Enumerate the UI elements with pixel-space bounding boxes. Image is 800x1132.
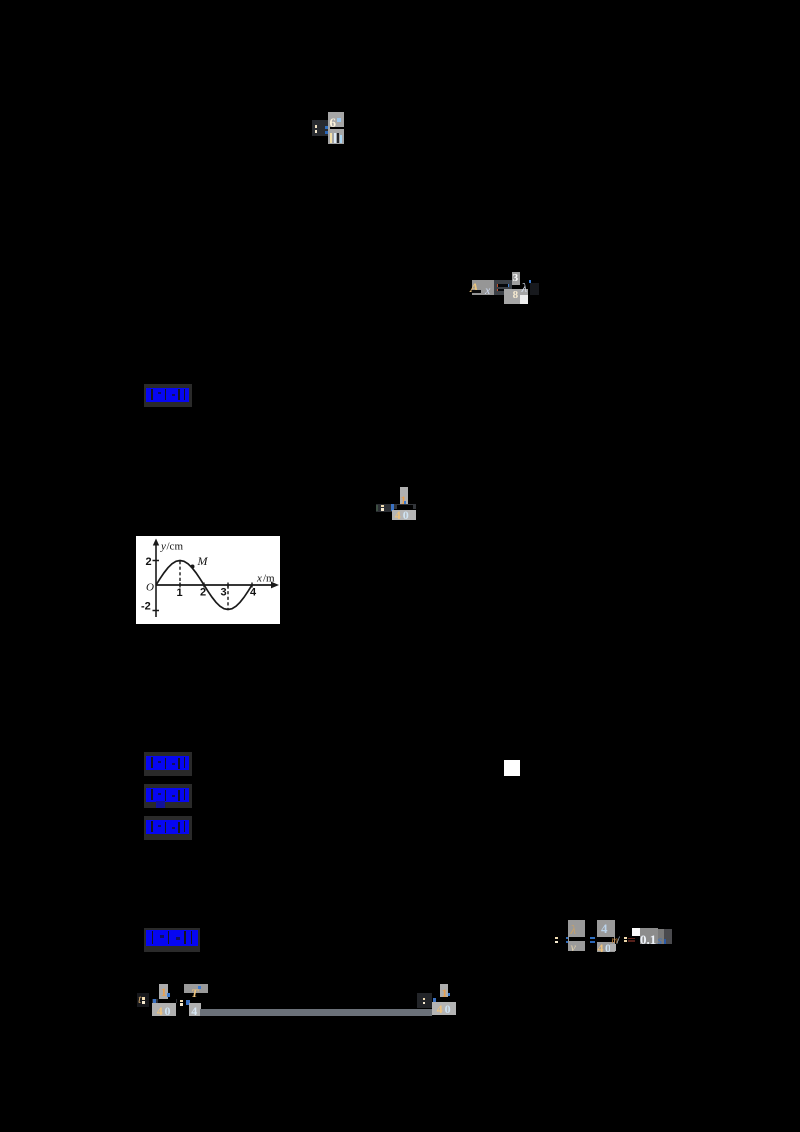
svg-text:M: M (197, 554, 209, 568)
svg-text:x: x (256, 572, 262, 584)
svg-text:2: 2 (200, 586, 206, 598)
svg-text:/m: /m (263, 572, 275, 584)
svg-text:4: 4 (250, 586, 257, 598)
svg-text:-2: -2 (141, 600, 151, 612)
svg-text:2: 2 (146, 556, 152, 568)
svg-text:/cm: /cm (167, 540, 184, 552)
svg-text:3: 3 (221, 586, 227, 598)
svg-text:y: y (160, 540, 166, 552)
svg-text:1: 1 (177, 587, 183, 599)
svg-text:O: O (146, 581, 154, 593)
